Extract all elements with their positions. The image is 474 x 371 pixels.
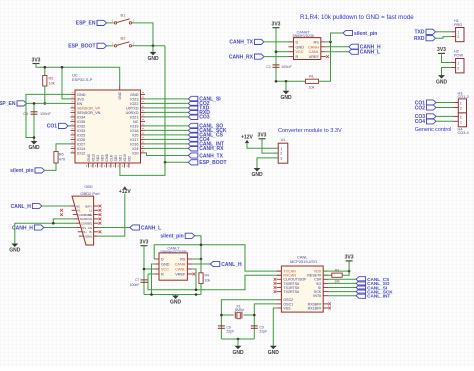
svg-text:2: 2 [460, 120, 462, 124]
svg-text:CANL_H: CANL_H [221, 262, 242, 268]
svg-text:10k: 10k [334, 279, 340, 283]
svg-text:SENSOR_VP: SENSOR_VP [77, 106, 101, 110]
svg-text:OBD2 Port: OBD2 Port [80, 191, 100, 196]
svg-text:GND: GND [161, 263, 170, 267]
svg-text:SD0: SD0 [114, 155, 118, 162]
svg-text:SD1: SD1 [118, 155, 122, 162]
svg-text:EN: EN [77, 102, 83, 106]
svg-text:ESP32-S-P: ESP32-S-P [72, 77, 93, 82]
svg-text:IO32: IO32 [77, 124, 85, 128]
svg-text:100nF: 100nF [40, 112, 51, 116]
svg-text:IO12: IO12 [77, 151, 85, 155]
svg-text:IO17: IO17 [130, 138, 138, 142]
svg-text:470: 470 [59, 158, 65, 162]
svg-text:8MHz: 8MHz [235, 308, 244, 312]
svg-text:CANL: CANL [175, 268, 185, 272]
svg-text:IO14: IO14 [77, 147, 85, 151]
svg-text:2: 2 [460, 106, 462, 110]
svg-text:2: 2 [457, 35, 459, 39]
svg-text:IO25: IO25 [77, 133, 85, 137]
svg-text:R4: R4 [205, 274, 210, 278]
svg-text:VREF: VREF [309, 55, 320, 59]
svg-text:3V3: 3V3 [140, 240, 149, 246]
svg-text:RS: RS [180, 258, 186, 262]
svg-text:GND: GND [268, 350, 280, 356]
svg-text:100nF: 100nF [281, 65, 292, 69]
svg-text:silent_pin: silent_pin [160, 234, 183, 240]
svg-text:IO33: IO33 [77, 129, 85, 133]
svg-text:CANL_H: CANL_H [11, 204, 32, 210]
svg-text:CANH_L: CANH_L [141, 225, 161, 231]
svg-text:CANH_L: CANH_L [360, 50, 380, 56]
svg-text:OBD: OBD [84, 185, 92, 189]
svg-text:silent_pin: silent_pin [354, 31, 377, 37]
svg-text:CO3: CO3 [199, 115, 210, 121]
svg-text:GND: GND [147, 56, 159, 62]
svg-text:CANL_INT: CANL_INT [367, 294, 390, 299]
svg-text:IO15: IO15 [123, 154, 127, 161]
svg-text:TXD: TXD [415, 30, 425, 36]
svg-text:GND: GND [296, 45, 305, 49]
svg-text:ML: ML [88, 234, 92, 238]
svg-text:IO18: IO18 [130, 129, 138, 133]
svg-text:1: 1 [280, 147, 282, 151]
svg-text:R: R [296, 55, 299, 59]
svg-text:IO4: IO4 [132, 147, 138, 151]
svg-text:100nF: 100nF [130, 283, 140, 287]
svg-text:SD3: SD3 [100, 155, 104, 162]
svg-text:IO19: IO19 [130, 124, 138, 128]
svg-text:B2: B2 [121, 35, 127, 40]
svg-text:CLK: CLK [109, 154, 113, 161]
svg-text:ESP_EN: ESP_EN [76, 21, 96, 27]
svg-text:3V3: 3V3 [258, 133, 267, 139]
svg-text:PRG: PRG [454, 23, 462, 27]
svg-text:RX1BF#: RX1BF# [308, 306, 322, 310]
svg-text:C7: C7 [135, 278, 140, 282]
svg-text:GND: GND [436, 79, 448, 85]
svg-text:1: 1 [460, 115, 462, 119]
svg-text:3V3: 3V3 [272, 22, 281, 28]
svg-text:GND: GND [130, 93, 139, 97]
svg-text:IO35: IO35 [77, 120, 85, 124]
svg-text:GND: GND [170, 300, 182, 306]
svg-text:CO4: CO4 [415, 119, 426, 125]
svg-text:CO2: CO2 [415, 105, 426, 111]
svg-text:IO34: IO34 [77, 115, 85, 119]
svg-text:CANH_RX: CANH_RX [229, 54, 254, 60]
svg-text:VSS: VSS [283, 306, 291, 310]
svg-text:10k: 10k [49, 82, 55, 86]
svg-text:D: D [296, 40, 299, 44]
svg-text:GND: GND [9, 248, 21, 254]
svg-text:C1: C1 [266, 65, 271, 69]
svg-text:CMD: CMD [105, 153, 109, 161]
svg-text:CANH_RX: CANH_RX [199, 146, 224, 152]
svg-text:22pF: 22pF [226, 330, 234, 334]
svg-text:IO0: IO0 [132, 151, 138, 155]
svg-text:ESP_EN: ESP_EN [0, 101, 16, 107]
svg-text:IO5: IO5 [132, 133, 138, 137]
svg-text:CANH: CANH [308, 45, 319, 49]
svg-text:CANH: CANH [175, 263, 186, 267]
svg-text:silent_pin: silent_pin [10, 168, 33, 174]
svg-text:TX2RTS#: TX2RTS# [283, 290, 299, 294]
svg-text:CANL: CANL [309, 50, 319, 54]
svg-text:3V3: 3V3 [345, 255, 354, 261]
svg-text:R: R [161, 273, 164, 277]
svg-text:U0TXD: U0TXD [126, 106, 139, 110]
svg-text:SN65HVD236: SN65HVD236 [293, 34, 314, 38]
svg-text:2: 2 [280, 152, 282, 156]
svg-text:10k: 10k [205, 279, 211, 283]
svg-text:GND: GND [280, 95, 292, 101]
svg-text:22pF: 22pF [259, 330, 267, 334]
svg-text:1: 1 [457, 61, 459, 65]
svg-text:IO21: IO21 [130, 115, 138, 119]
svg-text:MCP2515-I/SO: MCP2515-I/SO [290, 259, 317, 264]
svg-text:IO23: IO23 [130, 97, 138, 101]
svg-text:3V3: 3V3 [32, 57, 41, 63]
svg-text:SN65HVD230DR: SN65HVD230DR [160, 250, 187, 254]
svg-text:R2: R2 [49, 77, 54, 81]
svg-text:VCC: VCC [161, 268, 169, 272]
svg-text:CANH_TX: CANH_TX [199, 153, 223, 159]
svg-text:R1: R1 [309, 75, 314, 79]
svg-text:IO2: IO2 [127, 156, 131, 162]
svg-text:+12V: +12V [241, 135, 253, 141]
svg-text:GND: GND [28, 145, 40, 151]
svg-text:GND: GND [87, 153, 91, 161]
svg-text:VREF: VREF [175, 273, 186, 277]
svg-text:IO22: IO22 [130, 102, 138, 106]
svg-text:CO1: CO1 [47, 124, 58, 130]
svg-text:INT#: INT# [313, 294, 321, 298]
svg-text:GND: GND [251, 172, 263, 178]
svg-text:B1: B1 [121, 12, 127, 17]
svg-text:VCC: VCC [296, 50, 304, 54]
svg-text:IO13: IO13 [91, 154, 95, 161]
svg-text:IO16: IO16 [130, 142, 138, 146]
svg-text:RS: RS [314, 40, 320, 44]
svg-text:R6: R6 [59, 153, 64, 157]
svg-text:U0RXD: U0RXD [126, 111, 139, 115]
svg-text:3: 3 [280, 157, 282, 161]
svg-text:2: 2 [457, 66, 459, 70]
svg-text:R3: R3 [335, 269, 339, 273]
svg-text:R1,R4: 10k pulldown to GND = f: R1,R4: 10k pulldown to GND = fast mode [300, 14, 414, 21]
svg-text:IO27: IO27 [77, 142, 85, 146]
svg-text:ESP_BOOT: ESP_BOOT [68, 44, 95, 50]
svg-text:1: 1 [460, 101, 462, 105]
svg-text:IO26: IO26 [77, 138, 85, 142]
svg-text:SD2: SD2 [96, 155, 100, 162]
svg-text:SENSOR_VN: SENSOR_VN [77, 111, 101, 115]
svg-text:10k: 10k [308, 86, 314, 90]
svg-text:3V3: 3V3 [437, 47, 446, 53]
svg-text:D: D [161, 258, 164, 262]
svg-text:GND: GND [77, 93, 86, 97]
svg-text:POW: POW [454, 54, 463, 58]
svg-text:3V3: 3V3 [77, 97, 84, 101]
svg-text:Generic control: Generic control [415, 127, 452, 133]
svg-text:Converter module to 3.3V: Converter module to 3.3V [278, 128, 342, 134]
svg-text:NC: NC [133, 120, 139, 124]
svg-text:RXD: RXD [414, 36, 425, 42]
svg-text:1: 1 [457, 30, 459, 34]
svg-text:ESP_BOOT: ESP_BOOT [199, 160, 226, 166]
svg-text:U1: U1 [281, 138, 286, 142]
svg-text:CANH_TX: CANH_TX [229, 40, 253, 46]
svg-text:GND: GND [118, 91, 122, 99]
svg-text:CO3-4: CO3-4 [458, 131, 469, 135]
svg-text:GND: GND [232, 350, 244, 356]
